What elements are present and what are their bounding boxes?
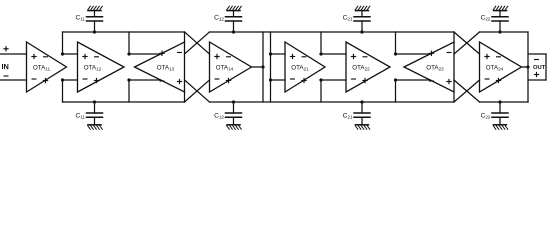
svg-text:OUT: OUT	[533, 65, 546, 71]
svg-text:IN: IN	[2, 62, 9, 71]
